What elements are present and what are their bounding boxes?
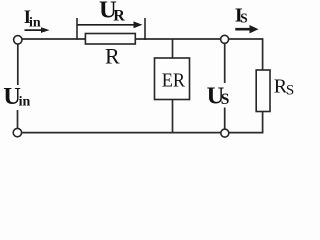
- arrow Iin: [25, 27, 50, 33]
- svg-text:ER: ER: [162, 69, 186, 91]
- wire US upper segment: [224, 43, 226, 83]
- wire ER top lead: [172, 39, 174, 58]
- terminal left bottom: [13, 128, 21, 136]
- arrow IS: [235, 25, 258, 33]
- label Iin: [24, 8, 41, 31]
- resistor R: [85, 34, 135, 45]
- label US: [207, 83, 230, 110]
- wire bottom horizontal: [21, 132, 263, 134]
- svg-text:in: in: [19, 95, 31, 110]
- svg-text:R: R: [105, 44, 120, 69]
- wire right vertical upper: [262, 38, 264, 70]
- wire top horizontal: [22, 38, 264, 40]
- label RS: [274, 76, 294, 99]
- svg-text:S: S: [240, 11, 247, 26]
- wire left vertical upper: [17, 44, 19, 85]
- terminal left top: [14, 36, 22, 44]
- node top: [221, 35, 229, 43]
- wire left vertical lower: [17, 110, 19, 129]
- label Uin: [3, 83, 30, 110]
- svg-text:S: S: [221, 91, 230, 108]
- svg-text:S: S: [286, 82, 294, 98]
- label IS: [235, 5, 248, 27]
- resistor RS: [256, 70, 270, 112]
- wire US lower segment: [224, 108, 226, 130]
- svg-text:in: in: [29, 16, 41, 31]
- node bottom: [221, 129, 229, 137]
- label UR: [99, 0, 125, 24]
- svg-text:R: R: [113, 7, 125, 24]
- wire right vertical lower (RS bottom lead): [262, 112, 264, 134]
- wire ER bottom lead: [172, 100, 174, 133]
- arrow UR: [77, 18, 145, 40]
- source ER: [155, 58, 190, 100]
